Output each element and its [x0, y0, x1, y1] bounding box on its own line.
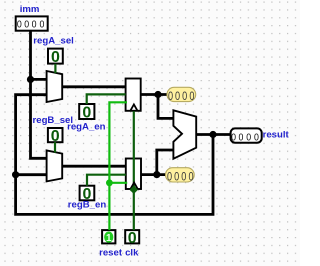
pin regA_en — [79, 104, 94, 119]
pin regB_en — [80, 186, 95, 201]
junction feedback/muxB — [12, 171, 19, 178]
svg-text:0: 0 — [239, 132, 244, 144]
wire regB out up to big mux in2 — [157, 150, 174, 175]
wire reset (bright, value 1) — [109, 102, 127, 230]
mux B — [47, 150, 63, 181]
svg-text:imm: imm — [20, 4, 40, 15]
wire imm bus: pin down to muxB in1 — [31, 31, 47, 159]
svg-text:0: 0 — [182, 90, 187, 104]
pin regA_sel — [48, 49, 63, 64]
probe B — [166, 168, 195, 182]
svg-text:0: 0 — [82, 105, 91, 122]
svg-text:0: 0 — [39, 19, 44, 31]
svg-text:regB_en: regB_en — [68, 199, 107, 210]
probe A — [167, 87, 196, 101]
wire regA out to probeA — [141, 93, 167, 96]
output pin result — [231, 128, 262, 142]
svg-text:regA_en: regA_en — [67, 122, 106, 133]
svg-text:0: 0 — [174, 170, 179, 184]
svg-text:regA_sel: regA_sel — [33, 36, 74, 47]
svg-text:0: 0 — [175, 90, 180, 104]
junction reset — [106, 179, 113, 186]
svg-text:0: 0 — [17, 19, 22, 31]
junction imm/muxA — [27, 76, 34, 83]
svg-text:0: 0 — [246, 132, 251, 144]
svg-text:0: 0 — [168, 90, 173, 104]
wire regA out down to big mux in1 — [158, 95, 173, 119]
register B clock chevron — [131, 183, 138, 189]
register A — [126, 79, 141, 111]
wire reset branch to regB clr — [109, 182, 127, 184]
wire big mux out to result — [196, 133, 230, 136]
wire muxB out to regB D — [62, 165, 126, 168]
svg-text:0: 0 — [189, 90, 194, 104]
wire regB_sel select — [54, 142, 56, 153]
svg-text:reset: reset — [99, 247, 123, 258]
register A clock chevron — [130, 104, 137, 110]
svg-text:result: result — [263, 130, 290, 141]
svg-text:0: 0 — [231, 132, 236, 144]
junction clk — [130, 186, 138, 194]
junction regA out — [154, 91, 161, 98]
wire clk — [133, 111, 135, 230]
wire feedback bus left/bottom/right — [16, 95, 213, 215]
svg-text:0: 0 — [188, 170, 193, 184]
svg-text:0: 0 — [128, 230, 137, 247]
svg-text:0: 0 — [32, 19, 37, 31]
mux A — [47, 71, 63, 102]
wire feedback to muxB in2 — [16, 173, 47, 176]
wire regB_en — [87, 175, 126, 186]
svg-text:0: 0 — [51, 49, 60, 66]
wire regB out to probeB — [141, 173, 166, 176]
wire branch to muxA in1 — [31, 78, 47, 81]
wire regA_en — [87, 94, 126, 104]
big mux U3 — [173, 110, 196, 158]
svg-text:1: 1 — [106, 233, 112, 244]
svg-text:0: 0 — [254, 132, 259, 144]
svg-text:0: 0 — [167, 170, 172, 184]
pin reset — [102, 230, 115, 243]
input pin imm — [16, 16, 48, 30]
pin regB_sel — [48, 128, 63, 142]
junction regB out — [153, 171, 160, 178]
wire regA_sel select — [54, 64, 56, 73]
pin clk — [125, 230, 139, 243]
wire muxA out to regA D — [62, 85, 126, 88]
register B — [126, 159, 141, 190]
junction big mux out — [209, 131, 216, 138]
svg-text:0: 0 — [24, 19, 29, 31]
svg-text:0: 0 — [181, 170, 186, 184]
svg-text:clk: clk — [125, 247, 139, 258]
